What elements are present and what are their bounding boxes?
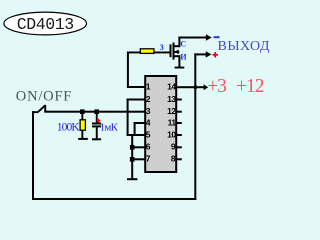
svg-text:8: 8 <box>171 154 176 164</box>
svg-text:12: 12 <box>167 106 176 116</box>
svg-text:3: 3 <box>146 106 151 116</box>
svg-text:+3: +3 <box>207 76 226 97</box>
svg-text:CD4013: CD4013 <box>17 15 74 34</box>
svg-text:6: 6 <box>146 142 151 152</box>
svg-text:7: 7 <box>146 154 151 164</box>
svg-text:ВЫХОД: ВЫХОД <box>218 39 270 54</box>
svg-text:ON/OFF: ON/OFF <box>16 88 72 104</box>
svg-text:5: 5 <box>146 129 151 139</box>
svg-text:4: 4 <box>146 117 151 127</box>
svg-text:2: 2 <box>146 94 151 104</box>
svg-text:З: З <box>160 43 164 52</box>
svg-text:14: 14 <box>167 81 176 91</box>
svg-text:1мК: 1мК <box>100 121 119 133</box>
svg-text:13: 13 <box>167 94 176 104</box>
svg-text:И: И <box>180 53 187 62</box>
svg-text:10: 10 <box>167 129 176 139</box>
svg-text:1: 1 <box>146 81 151 91</box>
svg-text:9: 9 <box>171 142 176 152</box>
svg-text:С: С <box>180 40 186 49</box>
svg-text:100K: 100K <box>57 121 81 133</box>
svg-text:+12: +12 <box>236 76 264 97</box>
svg-text:11: 11 <box>168 117 177 127</box>
